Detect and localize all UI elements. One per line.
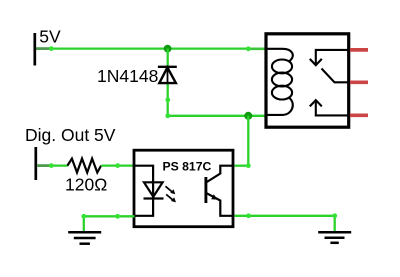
resistor R1: [67, 159, 101, 173]
svg-text:1N4148: 1N4148: [97, 66, 158, 86]
wire opto emitter to ground (right): [235, 213, 338, 231]
node A: junction 5V rail / diode: [164, 45, 172, 53]
ground right: [318, 232, 351, 243]
opto U1 body: [134, 150, 233, 227]
terminal Dig. Out: [34, 147, 37, 180]
power terminal 5V: [33, 33, 36, 66]
svg-text:120Ω: 120Ω: [65, 174, 107, 194]
svg-text:Dig. Out 5V: Dig. Out 5V: [25, 125, 116, 145]
pin stub: relay contact common (red): [350, 80, 368, 84]
opto LED D2: [144, 182, 164, 198]
opto phototransistor Q1: [206, 166, 233, 216]
relay contact: common blade (middle): [322, 69, 348, 83]
opto LED emission arrow 1: [166, 186, 176, 194]
opto LED emission arrow 2: [166, 194, 176, 202]
relay contact: NC throw (top, arrow down): [310, 50, 348, 65]
relay coil L: [268, 49, 293, 115]
wire resistor to opto anode pin: [101, 163, 134, 168]
wire Dig.Out to resistor: [37, 163, 68, 168]
wire junction B down to opto collector pin: [235, 116, 251, 168]
svg-text:5V: 5V: [39, 26, 61, 46]
pin stub: relay contact 2 (red): [350, 113, 368, 117]
opto LED leads: [135, 166, 153, 216]
wire opto cathode to ground (left): [81, 214, 134, 231]
svg-text:PS 817C: PS 817C: [163, 159, 212, 173]
diode D1 1N4148: [158, 67, 177, 83]
wire diode branch (cathode up to rail): [167, 49, 169, 67]
relay contact: NO throw (bottom, arrow up): [310, 100, 348, 115]
wire 5V rail: [36, 46, 266, 51]
wire diode anode down, corner to coil junction: [165, 83, 248, 118]
relay K1 body: [266, 34, 349, 127]
node B: junction coil bottom / opto collector: [244, 112, 265, 120]
pin stub: relay contact 1 (red): [350, 48, 368, 52]
ground left: [68, 232, 101, 244]
